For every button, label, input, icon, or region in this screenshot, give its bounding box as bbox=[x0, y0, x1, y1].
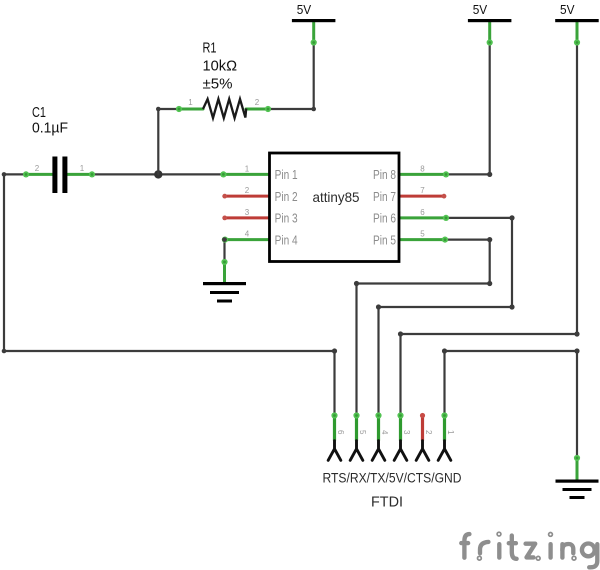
ground symbol 2 bbox=[556, 455, 599, 499]
svg-text:Pin 4: Pin 4 bbox=[275, 232, 298, 247]
node corner GND right bbox=[574, 348, 579, 353]
wire attiny85 Pin 4 to ground bbox=[223, 240, 225, 262]
pin 2 lead bbox=[225, 195, 271, 198]
svg-text:5: 5 bbox=[420, 230, 425, 239]
node corner R1 right bbox=[311, 107, 316, 112]
resistor R1 lead 1 bbox=[179, 108, 203, 111]
svg-text:1: 1 bbox=[188, 98, 193, 107]
node corner 5V right bbox=[574, 331, 579, 336]
fritzing watermark logo bbox=[461, 532, 597, 567]
svg-text:Pin 7: Pin 7 bbox=[373, 189, 396, 204]
svg-text:Pin 5: Pin 5 bbox=[373, 232, 396, 247]
FTDI connector pin 6 RTS lead bbox=[328, 412, 345, 460]
svg-text:FTDI: FTDI bbox=[371, 493, 403, 510]
logo letter i 1 bbox=[497, 532, 501, 536]
wire attiny85 Pin 8 to 5V rail 2 bbox=[446, 43, 490, 174]
svg-text:RTS/RX/TX/5V/CTS/GND: RTS/RX/TX/5V/CTS/GND bbox=[323, 471, 462, 486]
svg-text:Pin 1: Pin 1 bbox=[275, 167, 298, 182]
capacitor C1 lead 1 bbox=[67, 173, 92, 176]
svg-text:1: 1 bbox=[245, 164, 250, 173]
node corner Pin 6 bbox=[509, 215, 514, 220]
power symbol 5V rail 3 bbox=[555, 3, 599, 46]
svg-text:1: 1 bbox=[446, 430, 455, 435]
svg-text:10kΩ: 10kΩ bbox=[203, 58, 238, 75]
svg-text:5V: 5V bbox=[560, 3, 575, 17]
resistor R1 lead 2 bbox=[246, 108, 268, 111]
wire attiny85 Pin 5 to FTDI RX bbox=[357, 240, 490, 416]
svg-text:3: 3 bbox=[245, 208, 250, 217]
svg-text:1: 1 bbox=[80, 164, 85, 173]
logo letter g bbox=[582, 544, 595, 557]
node corner Pin 4 bbox=[222, 237, 227, 242]
svg-text:2: 2 bbox=[35, 164, 40, 173]
svg-text:C1: C1 bbox=[32, 104, 46, 121]
pin 3 lead bbox=[225, 216, 271, 219]
svg-text:Pin 6: Pin 6 bbox=[373, 211, 396, 226]
node corner C1 left bbox=[2, 172, 7, 177]
node corner TX drop bbox=[376, 304, 381, 309]
node corner R1 left bbox=[156, 107, 161, 112]
FTDI connector pin 3 5V lead bbox=[394, 412, 411, 460]
svg-text:2: 2 bbox=[245, 186, 250, 195]
svg-text:R1: R1 bbox=[203, 40, 217, 57]
svg-text:6: 6 bbox=[420, 208, 425, 217]
power symbol 5V rail 2 bbox=[468, 3, 512, 46]
capacitor C1 plates bbox=[52, 157, 57, 194]
capacitor C1 lead 2 bbox=[26, 173, 52, 176]
svg-text:7: 7 bbox=[420, 186, 425, 195]
svg-text:attiny85: attiny85 bbox=[313, 189, 360, 205]
svg-text:5: 5 bbox=[358, 430, 367, 435]
node corner RX mid bbox=[487, 281, 492, 286]
FTDI connector pin 1 GND lead bbox=[438, 412, 455, 460]
FTDI connector pin 2 CTS lead bbox=[416, 413, 433, 460]
svg-text:6: 6 bbox=[336, 430, 345, 435]
wire junction up to R1.1 bbox=[158, 109, 179, 174]
wire net C1.2 to FTDI RTS bbox=[4, 174, 335, 415]
pin 5 lead bbox=[398, 238, 445, 241]
svg-text:±5%: ±5% bbox=[203, 76, 233, 93]
logo letter i 2 bbox=[549, 533, 553, 537]
node corner TX mid bbox=[509, 304, 514, 309]
logo letter f bbox=[464, 534, 469, 558]
node corner GND up bbox=[442, 348, 447, 353]
wire R1.2 to 5V rail 1 bbox=[268, 43, 314, 109]
logo letter t bbox=[512, 536, 517, 559]
node corner 5V drop bbox=[398, 331, 403, 336]
wire FTDI GND to ground 2 bbox=[445, 351, 578, 458]
node junction reset net bbox=[154, 170, 162, 178]
logo letter n bbox=[560, 544, 564, 557]
pin 8 lead bbox=[398, 173, 446, 176]
node corner RTS drop bbox=[332, 348, 337, 353]
ground symbol 1 bbox=[203, 259, 246, 303]
FTDI connector pin 5 RX lead bbox=[350, 412, 367, 460]
svg-text:2: 2 bbox=[424, 430, 433, 435]
wire C1.1 to attiny85 Pin 1 bbox=[92, 173, 223, 175]
svg-text:Pin 8: Pin 8 bbox=[373, 167, 396, 182]
FTDI connector pin 4 TX lead bbox=[372, 412, 389, 460]
svg-text:4: 4 bbox=[380, 430, 389, 435]
logo letter z bbox=[526, 544, 536, 558]
svg-text:8: 8 bbox=[420, 164, 425, 173]
logo letter r bbox=[480, 542, 488, 553]
svg-text:3: 3 bbox=[402, 430, 411, 435]
pin 6 lead bbox=[398, 216, 446, 219]
IC U1 attiny85 body bbox=[270, 153, 400, 262]
power symbol 5V rail 1 bbox=[292, 3, 336, 46]
node corner RX drop bbox=[354, 281, 359, 286]
node corner bottom-left bbox=[2, 349, 7, 354]
node corner Pin 8 bbox=[487, 172, 492, 177]
pin 1 lead bbox=[223, 173, 270, 176]
pin 7 lead bbox=[398, 195, 444, 198]
wire 5V rail 3 to FTDI 5V bbox=[401, 43, 578, 416]
svg-text:5V: 5V bbox=[473, 3, 488, 17]
svg-text:Pin 2: Pin 2 bbox=[275, 189, 298, 204]
node corner Pin 5 bbox=[487, 237, 492, 242]
svg-text:4: 4 bbox=[245, 230, 250, 239]
svg-text:Pin 3: Pin 3 bbox=[275, 211, 298, 226]
svg-text:5V: 5V bbox=[297, 3, 312, 17]
wire attiny85 Pin 6 to FTDI TX bbox=[379, 218, 513, 416]
svg-text:0.1µF: 0.1µF bbox=[32, 120, 68, 137]
pin 4 lead bbox=[225, 238, 271, 241]
svg-text:2: 2 bbox=[255, 98, 260, 107]
resistor R1 zigzag body bbox=[203, 99, 246, 118]
